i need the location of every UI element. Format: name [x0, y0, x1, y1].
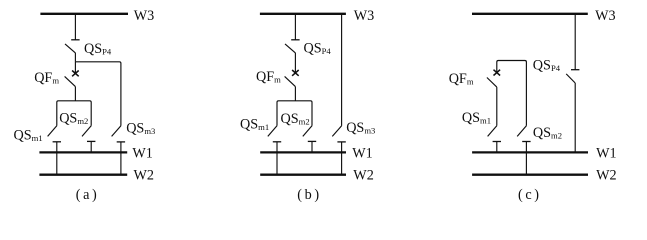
svg-text:W3: W3 — [354, 8, 375, 24]
wire QSP4 to bus W1 (c) — [574, 83, 576, 152]
disconnector QSm1 fixed contact tick (c) — [493, 141, 501, 143]
wire split bracket to QSm1 and QSm2 (b) — [277, 101, 312, 126]
node junction and branch wire to QSm3 (a) — [75, 62, 121, 126]
wire QFm to branch bracket (a) — [74, 87, 76, 101]
disconnector QSP4 fixed contact tick (a) — [71, 39, 79, 41]
svg-text:W2: W2 — [134, 168, 155, 184]
wire QSm1 to bus W1 (c) — [496, 142, 498, 153]
busbar W2 (c) — [472, 174, 588, 176]
wire QSm1 to bus W2 (b) — [276, 142, 278, 175]
svg-text:QSm1: QSm1 — [14, 128, 43, 144]
disconnector QSm3 fixed contact tick (b) — [337, 141, 345, 143]
svg-text:(b): (b) — [297, 187, 319, 203]
disconnector QSm3 fixed contact tick (a) — [117, 141, 125, 143]
disconnector QSm3 blade (a) — [112, 126, 121, 137]
wire QSm2 to bus W1 (a) — [90, 141, 92, 152]
disconnector QSm2 fixed contact tick (c) — [522, 141, 530, 143]
svg-text:W2: W2 — [596, 168, 617, 184]
disconnector QSm1 fixed contact tick (a) — [53, 141, 61, 143]
wire QSP4 to junction (a) — [74, 53, 76, 62]
wire bus W3 to QSP4 tick (b) — [294, 14, 296, 40]
disconnector QSP4 blade (b) — [285, 44, 295, 53]
disconnector QSP4 fixed contact tick (c) — [571, 69, 579, 71]
svg-text:QSP4: QSP4 — [84, 41, 112, 57]
disconnector QSm1 blade (c) — [488, 126, 497, 137]
busbar W2 (a) — [39, 174, 127, 176]
svg-text:(a): (a) — [76, 187, 97, 203]
breaker QFm contact cross X (c) — [494, 70, 501, 76]
svg-text:W1: W1 — [596, 146, 617, 162]
svg-text:QFm: QFm — [449, 71, 474, 87]
svg-text:W1: W1 — [132, 146, 153, 162]
breaker QFm blade (b) — [285, 76, 296, 86]
svg-text:W3: W3 — [595, 8, 616, 24]
svg-text:QSm1: QSm1 — [462, 110, 491, 126]
busbar W1 (c) — [472, 151, 588, 153]
svg-text:QSP4: QSP4 — [533, 58, 561, 74]
disconnector QSm3 blade (b) — [332, 126, 341, 137]
wire junction to breaker QFm (a) — [74, 62, 76, 74]
disconnector QSm1 blade (a) — [48, 126, 57, 137]
busbar W1 (a) — [39, 151, 127, 153]
wire QSm3 to bus W2 (a) — [120, 142, 122, 175]
breaker QFm contact cross X (a) — [72, 71, 79, 77]
wire QFm to QSm1 (c) — [496, 87, 498, 126]
wire QSm1 to bus W2 (a) — [56, 142, 58, 175]
breaker QFm blade (c) — [487, 78, 497, 88]
disconnector QSm2 fixed contact tick (a) — [87, 140, 95, 142]
disconnector QSm2 blade (b) — [303, 126, 312, 137]
svg-text:QSm2: QSm2 — [533, 125, 562, 141]
svg-text:(c): (c) — [518, 187, 539, 203]
wire bus W3 down to QSm3 (b) — [341, 14, 343, 126]
disconnector QSm2 blade (c) — [517, 126, 526, 137]
wire split bracket to QSm1 and QSm2 (a) — [57, 101, 91, 126]
svg-text:QSP4: QSP4 — [304, 41, 332, 57]
svg-text:QSm2: QSm2 — [281, 111, 310, 127]
breaker QFm blade (a) — [65, 76, 76, 86]
svg-text:W3: W3 — [134, 8, 155, 24]
wire QSm2 to bus W1 (b) — [311, 141, 313, 152]
breaker QFm contact cross X (b) — [292, 70, 299, 76]
wire QSm2 to bus W2 (c) — [525, 142, 527, 175]
wire QFm to branch bracket (b) — [294, 87, 296, 101]
wire bracket top joining QFm leg and QSm2 leg (c) — [497, 61, 527, 126]
busbar W3 (b) — [260, 13, 346, 15]
busbar W1 (b) — [260, 151, 346, 153]
svg-text:QSm3: QSm3 — [346, 120, 375, 136]
disconnector QSm1 fixed contact tick (b) — [273, 141, 281, 143]
busbar W2 (b) — [260, 174, 346, 176]
wire QSP4 to breaker QFm (b) — [294, 53, 296, 73]
svg-text:QFm: QFm — [34, 70, 59, 86]
svg-text:QSm3: QSm3 — [126, 121, 155, 137]
svg-text:QSm1: QSm1 — [240, 117, 269, 133]
wire bus W3 to QSP4 tick (a) — [74, 14, 76, 40]
svg-text:QSm2: QSm2 — [59, 111, 88, 127]
disconnector QSm1 blade (b) — [268, 126, 277, 137]
disconnector QSm2 blade (a) — [82, 126, 91, 137]
disconnector QSP4 blade (c) — [566, 74, 575, 83]
svg-text:W2: W2 — [353, 168, 374, 184]
busbar W3 (a) — [40, 13, 128, 15]
disconnector QSP4 fixed contact tick (b) — [291, 39, 299, 41]
svg-text:W1: W1 — [352, 146, 373, 162]
disconnector QSP4 blade (a) — [65, 44, 75, 53]
disconnector QSm2 fixed contact tick (b) — [308, 140, 316, 142]
wire QSm3 to bus W2 (b) — [341, 142, 343, 175]
busbar W3 (c) — [472, 13, 588, 15]
svg-text:QFm: QFm — [256, 69, 281, 85]
wire bus W3 to QSP4 tick (c) — [574, 14, 576, 70]
